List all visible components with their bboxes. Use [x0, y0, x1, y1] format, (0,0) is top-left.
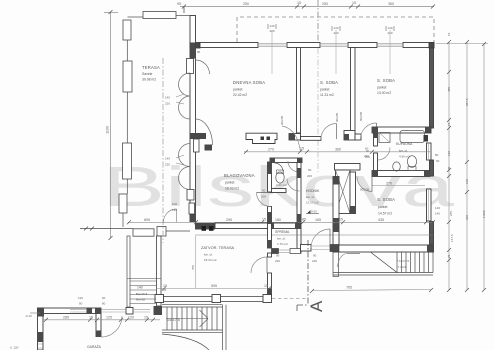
svg-text:SPREMA: SPREMA — [275, 230, 290, 234]
svg-text:15: 15 — [339, 218, 343, 222]
svg-text:13.17 m2: 13.17 m2 — [306, 201, 319, 205]
svg-text:ker. pl.: ker. pl. — [399, 149, 408, 153]
svg-text:295: 295 — [226, 218, 232, 222]
svg-text:15: 15 — [352, 1, 356, 5]
svg-text:90/205: 90/205 — [335, 112, 339, 122]
svg-text:KUPAONA: KUPAONA — [396, 142, 413, 146]
dash-dot centerline top — [317, 0, 319, 46]
windows in top wall — [258, 43, 403, 46]
svg-text:GARAŽA: GARAŽA — [87, 344, 102, 349]
svg-text:1100: 1100 — [106, 126, 110, 134]
svg-text:15: 15 — [262, 218, 266, 222]
svg-text:Ra=28: Ra=28 — [136, 298, 145, 302]
svg-text:S. SOBA: S. SOBA — [377, 197, 395, 202]
window centre extension lines + labels — [272, 30, 390, 74]
svg-text:15: 15 — [89, 316, 93, 320]
svg-text:80: 80 — [79, 302, 83, 306]
svg-text:147.5: 147.5 — [450, 234, 454, 242]
svg-text:parket: parket — [378, 205, 387, 209]
svg-text:220: 220 — [333, 31, 338, 35]
terrace door swing arcs — [179, 60, 213, 190]
svg-text:270: 270 — [268, 148, 274, 152]
svg-text:15: 15 — [264, 284, 268, 288]
kitchen door arc to hodnik — [282, 126, 301, 152]
svg-text:13.00 m2: 13.00 m2 — [377, 91, 391, 95]
svg-text:140: 140 — [165, 157, 170, 161]
svg-text:parket: parket — [233, 88, 242, 92]
svg-text:Savele: Savele — [142, 72, 152, 76]
svg-text:parket: parket — [377, 86, 386, 90]
svg-text:265: 265 — [449, 211, 453, 216]
svg-text:140: 140 — [333, 26, 338, 30]
svg-text:220: 220 — [387, 31, 392, 35]
svg-text:15: 15 — [144, 316, 148, 320]
svg-text:A: A — [307, 300, 326, 312]
svg-text:7.16/13.5: 7.16/13.5 — [397, 259, 410, 263]
svg-text:TERASA: TERASA — [142, 65, 160, 70]
svg-text:0. 120: 0. 120 — [10, 346, 19, 350]
svg-text:95: 95 — [197, 50, 201, 54]
svg-text:140: 140 — [165, 96, 170, 100]
tick slashes top chain — [84, 5, 435, 241]
svg-text:435: 435 — [378, 218, 384, 222]
svg-text:11.31 m2: 11.31 m2 — [320, 93, 334, 97]
svg-text:60: 60 — [366, 149, 370, 153]
svg-text:220: 220 — [269, 29, 274, 33]
svg-text:220: 220 — [312, 259, 317, 263]
svg-text:BLAGOVAONA: BLAGOVAONA — [224, 173, 255, 178]
svg-text:165: 165 — [465, 179, 469, 184]
left vertical dim line — [110, 12, 112, 238]
svg-text:705: 705 — [191, 265, 195, 270]
svg-text:140: 140 — [435, 212, 440, 216]
svg-text:22.42 m2: 22.42 m2 — [233, 93, 247, 97]
svg-text:parket: parket — [225, 181, 234, 185]
svg-text:60: 60 — [262, 189, 266, 193]
svg-text:200: 200 — [365, 155, 370, 159]
svg-text:165: 165 — [315, 218, 321, 222]
svg-text:557.5: 557.5 — [465, 98, 469, 106]
svg-text:80: 80 — [435, 153, 439, 157]
svg-text:120: 120 — [78, 296, 83, 300]
bedroom doors — [321, 123, 377, 139]
svg-text:25: 25 — [447, 254, 451, 258]
svg-text:895: 895 — [144, 218, 150, 222]
dash-dot line mid terrace — [162, 58, 164, 243]
top dim chain line — [180, 6, 434, 8]
svg-text:125: 125 — [106, 316, 112, 320]
svg-text:parket: parket — [320, 88, 329, 92]
terasa dims — [157, 288, 272, 290]
terasa door — [251, 257, 267, 273]
svg-text:285: 285 — [63, 316, 69, 320]
svg-text:120: 120 — [435, 206, 440, 210]
svg-text:80/205: 80/205 — [359, 111, 363, 121]
svg-text:140: 140 — [137, 286, 143, 290]
svg-text:14.57 m2: 14.57 m2 — [378, 212, 392, 216]
svg-text:60: 60 — [308, 168, 312, 172]
svg-text:595: 595 — [211, 284, 217, 288]
svg-text:140: 140 — [387, 26, 392, 30]
svg-text:90: 90 — [313, 254, 317, 258]
svg-text:60: 60 — [436, 159, 440, 163]
svg-text:200: 200 — [307, 174, 312, 178]
svg-text:7.7x28: 7.7x28 — [398, 265, 407, 269]
svg-text:2.01 m2: 2.01 m2 — [276, 183, 287, 187]
svg-text:360: 360 — [388, 2, 394, 6]
svg-text:270: 270 — [386, 182, 392, 186]
svg-text:ZATVOR. TERASA: ZATVOR. TERASA — [201, 245, 235, 250]
svg-text:90: 90 — [276, 254, 280, 258]
svg-text:100: 100 — [172, 202, 177, 206]
svg-text:220: 220 — [165, 102, 170, 106]
svg-text:2.76 m2: 2.76 m2 — [277, 242, 288, 246]
svg-text:-0.10: -0.10 — [25, 314, 32, 318]
svg-text:360: 360 — [335, 148, 341, 152]
svg-text:HODNIK: HODNIK — [306, 189, 320, 193]
long thin line y235 — [195, 234, 433, 236]
svg-text:485: 485 — [447, 87, 451, 92]
svg-text:90: 90 — [102, 296, 106, 300]
svg-text:90/205: 90/205 — [360, 188, 370, 192]
svg-text:15: 15 — [297, 1, 301, 5]
svg-text:DNEVNA SOBA: DNEVNA SOBA — [233, 80, 265, 85]
svg-text:1.050: 1.050 — [482, 210, 486, 218]
south wall blagovaona — [195, 223, 215, 230]
svg-text:15: 15 — [447, 122, 451, 126]
svg-text:ker. pl.: ker. pl. — [204, 253, 213, 257]
svg-text:ker. pl.: ker. pl. — [277, 237, 286, 241]
svg-text:320: 320 — [465, 215, 469, 220]
svg-text:140: 140 — [269, 24, 274, 28]
sprema south wall with door gap — [272, 249, 279, 254]
svg-text:250: 250 — [322, 2, 328, 6]
svg-text:ker. pl.: ker. pl. — [306, 195, 315, 199]
svg-text:120: 120 — [128, 316, 134, 320]
svg-text:140: 140 — [172, 208, 177, 212]
svg-text:S. SOBA: S. SOBA — [377, 78, 395, 83]
svg-text:765: 765 — [346, 286, 352, 290]
svg-text:18.03 m2: 18.03 m2 — [225, 187, 239, 191]
svg-text:30.08 m2: 30.08 m2 — [142, 78, 156, 82]
svg-text:Bilskova: Bilskova — [102, 155, 454, 219]
svg-text:4.56 m2: 4.56 m2 — [399, 155, 410, 159]
svg-text:25: 25 — [163, 288, 167, 292]
svg-text:90/205: 90/205 — [280, 115, 284, 125]
svg-text:95: 95 — [177, 2, 181, 6]
svg-text:85: 85 — [302, 218, 306, 222]
svg-text:190: 190 — [447, 151, 451, 156]
svg-text:200: 200 — [261, 195, 266, 199]
svg-text:15: 15 — [300, 147, 304, 151]
svg-text:220: 220 — [165, 163, 170, 167]
dashed roof overhang — [237, 17, 434, 42]
label 100/140 terrace door — [164, 209, 177, 222]
svg-text:180: 180 — [275, 218, 281, 222]
svg-text:15: 15 — [447, 32, 451, 36]
svg-text:18.33 m2: 18.33 m2 — [204, 258, 217, 262]
svg-text:220: 220 — [275, 259, 280, 263]
svg-text:60: 60 — [447, 166, 451, 170]
svg-text:250: 250 — [243, 2, 249, 6]
svg-text:80: 80 — [102, 302, 106, 306]
svg-text:S. SOBA: S. SOBA — [320, 80, 338, 85]
svg-text:0.00: 0.00 — [311, 210, 317, 214]
svg-text:Ba=16.5: Ba=16.5 — [136, 292, 148, 296]
